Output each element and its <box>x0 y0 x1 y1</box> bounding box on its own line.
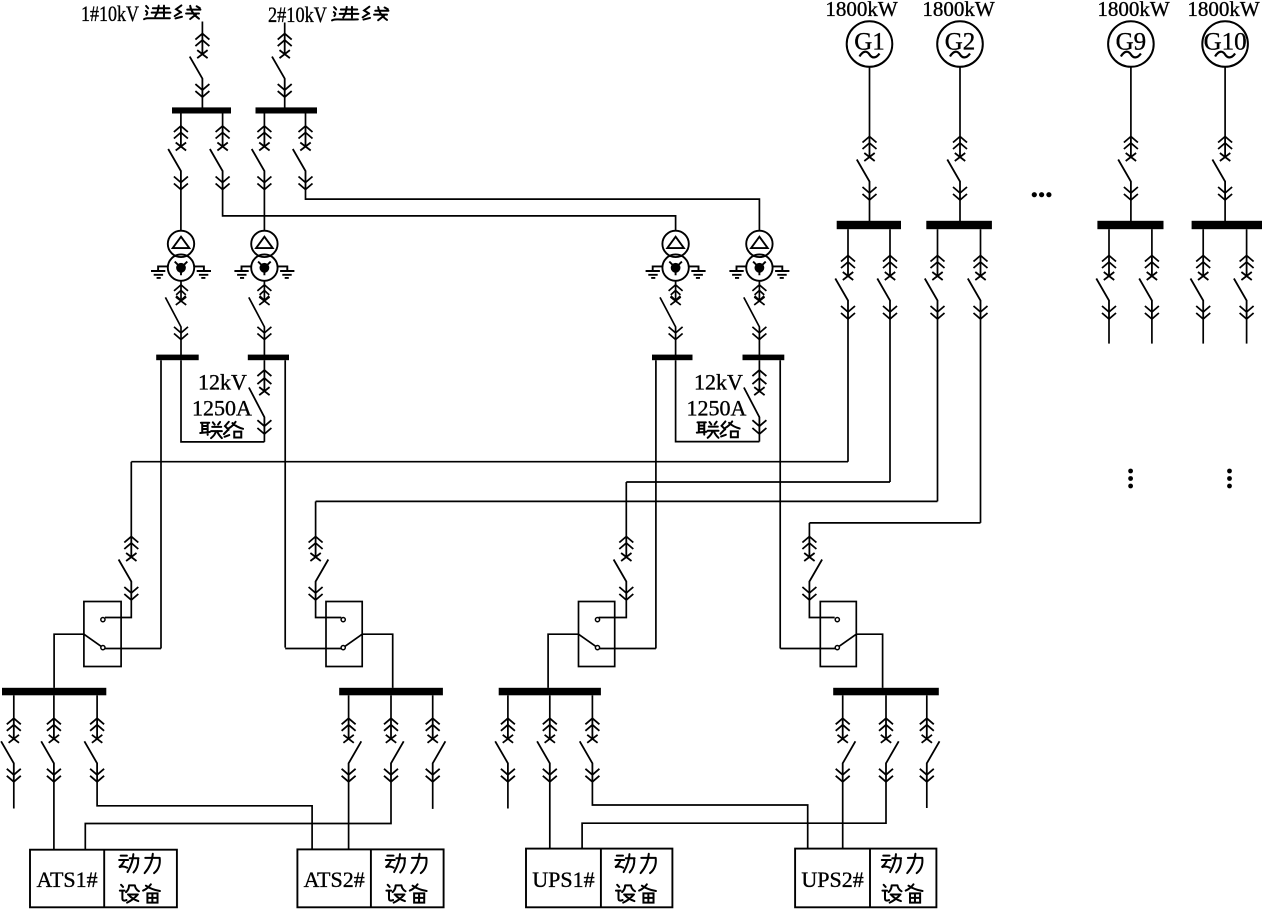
drawout breaker of generator G10 <box>1212 137 1232 201</box>
wire WL4 feeder 2 top <box>885 695 887 718</box>
wire D: WG2 bay2 to UPS2 input 1 (horizontal) <box>809 522 980 524</box>
drawout breaker WG1 bay1 <box>835 256 855 320</box>
svg-text:1#10kV: 1#10kV <box>81 1 139 26</box>
drawout breaker WG4 bay2 <box>1234 256 1254 320</box>
wire WG3 bay2 top <box>1151 229 1153 255</box>
wire WL2 feeder 1 top <box>348 695 350 718</box>
UPS2 fixed contact 1 <box>835 618 839 622</box>
ellipsis dots between G2 and G9 <box>1032 192 1037 197</box>
busbar WL2 (ATS2 LV bus) <box>339 688 443 696</box>
drawout breaker WL3 feeder 2 <box>537 718 557 782</box>
label char 进 (line1) <box>144 6 170 20</box>
label tie2 char 络 <box>720 421 739 437</box>
breaker on ATS2 input 1 <box>309 537 329 601</box>
wire WL2 feeder 2 to ATS1 load box <box>85 782 391 850</box>
wire WB3 feeder to ATS1 input 2 <box>160 360 162 648</box>
load box ATS2# divider <box>370 849 372 907</box>
drawout breaker WG3 bay2 <box>1139 256 1159 320</box>
transformer T2 (delta-wye, grounded) <box>234 231 294 281</box>
busbar WL1 (ATS1 LV bus) <box>2 688 106 696</box>
wire WG4 bay1 stub <box>1202 319 1204 344</box>
drawout breaker WL1 feeder 1 <box>1 718 21 782</box>
svg-text:1250A: 1250A <box>192 395 252 420</box>
label 动力 (UPS2#) <box>882 854 901 872</box>
wire QF2 to bus WB2 <box>284 97 286 108</box>
transformer T3 (delta-wye, grounded) <box>646 231 706 281</box>
wire WB6 to tie breaker 2 <box>758 360 760 370</box>
svg-text:G1: G1 <box>854 28 885 55</box>
UPS2 output wire <box>856 634 882 688</box>
wire bus-tie 1 (WB3 side) <box>181 360 264 442</box>
UPS1 fixed contact 1 <box>595 618 599 622</box>
drawout breaker WL4 feeder 2 <box>879 718 899 782</box>
wire QF4 to transformer T3 <box>223 190 676 231</box>
busbar WB6 (12kV section 4) <box>743 355 785 361</box>
drawout breaker T1 secondary <box>165 285 188 340</box>
wire G10 breaker to generator bus <box>1224 200 1226 221</box>
wire G9 breaker to generator bus <box>1130 200 1132 221</box>
transfer switch UPS1 enclosure <box>579 602 615 667</box>
drawout breaker WL3 feeder 1 <box>495 718 515 782</box>
wire WG4 bay2 top <box>1246 229 1248 255</box>
drawout breaker WG4 bay1 <box>1191 256 1211 320</box>
wire WL3 feeder 3 to UPS2 load box <box>592 782 807 849</box>
drawout breaker WG2 bay2 <box>968 256 988 320</box>
load box ATS1# divider <box>103 850 105 908</box>
generator G9 circle (~) <box>1108 21 1154 67</box>
wire ATS1 input 1 drop <box>130 462 132 537</box>
wire WG2 bay2 top <box>980 229 982 255</box>
ATS2 moving lever <box>345 634 362 646</box>
label 设备 (ATS1#) <box>120 885 139 903</box>
label char 线 (line1) <box>175 5 201 19</box>
load box ATS1# <box>30 850 177 908</box>
breaker on ATS1 input 1 <box>119 537 139 601</box>
UPS1 moving lever <box>579 634 596 646</box>
drawout breaker QF3 (WB1 bay 1) <box>168 126 188 190</box>
busbar WG4 (generator bus 4) <box>1192 221 1262 229</box>
busbar WL4 (UPS2 LV bus) <box>833 688 939 696</box>
wire QF5 to transformer T2 <box>263 190 265 231</box>
wire G2 breaker to generator bus <box>959 200 961 221</box>
drawout breaker WL4 feeder 3 <box>920 718 940 782</box>
label 设备 (UPS2#) <box>882 885 901 903</box>
label tie1 char 联 <box>200 422 222 438</box>
ATS1 contact 2 lead <box>105 648 161 650</box>
drawout breaker WG2 bay1 <box>925 256 945 320</box>
vertical ellipsis under WG3 <box>1128 469 1133 474</box>
transfer switch UPS2 enclosure <box>820 602 856 667</box>
busbar WB2 (10kV section 2) <box>256 107 318 113</box>
UPS2 moving lever <box>839 634 856 646</box>
label 动力 (ATS1#) <box>119 854 138 872</box>
wire ATS2 input 1 to contact <box>316 600 342 618</box>
wire WL3 feeder 3 top <box>591 695 593 718</box>
drawout breaker WG1 bay2 <box>877 256 897 320</box>
tie breaker QF-L2 (12kV 1250A) <box>744 370 767 434</box>
wire T2 secondary <box>263 281 265 285</box>
drawout breaker QF4 (WB1 bay 2) <box>210 126 230 190</box>
wire WG3 bay1 top <box>1108 229 1110 255</box>
wire T1 secondary <box>180 281 182 285</box>
wire G1 to breaker <box>869 67 871 137</box>
wire WL3 feeder 1 top <box>507 695 509 718</box>
wire T3 secondary to 12kV bus <box>675 340 677 356</box>
wire WL1 feeder 2 to ATS1 load box <box>53 782 55 850</box>
load box UPS2# divider <box>869 849 871 908</box>
busbar WG2 (generator bus 2) <box>926 221 992 229</box>
wire bus-tie 2 (WB5 side) <box>676 360 760 441</box>
wire WG4 bay1 top <box>1202 229 1204 255</box>
wire bus to breaker QF4 (WB1 bay 2) <box>222 114 224 127</box>
generator G10 circle (~) <box>1202 21 1248 67</box>
wire A: WG1 bay1 to ATS1 input 1 (horizontal) <box>131 461 848 463</box>
wire WL2 feeder 3 top <box>432 695 434 718</box>
ATS2 contact 2 lead <box>285 648 341 650</box>
load box UPS2# <box>795 849 936 908</box>
drawout breaker WG3 bay1 <box>1096 256 1116 320</box>
svg-text:G2: G2 <box>945 28 976 55</box>
drawout breaker WL3 feeder 3 <box>580 718 600 782</box>
UPS2 contact 2 lead <box>780 648 835 650</box>
wire WB6 feeder to UPS2 input 2 (vertical) <box>779 360 781 648</box>
wire WL4 feeder 2 to UPS1 load box <box>582 782 886 849</box>
svg-text:1800kW: 1800kW <box>1187 0 1260 21</box>
svg-text:G10: G10 <box>1204 28 1247 55</box>
wire WL4 feeder 1 top <box>842 695 844 718</box>
wire bus to breaker QF5 (WB2 bay 1) <box>263 114 265 127</box>
svg-text:ATS2#: ATS2# <box>304 867 365 892</box>
UPS1 contact 2 lead <box>600 648 656 650</box>
svg-text:2#10kV: 2#10kV <box>268 2 327 27</box>
transformer T1 (delta-wye, grounded) <box>151 231 211 281</box>
wire WG2 bay2 drop <box>980 319 982 523</box>
wire bus to breaker QF3 (WB1 bay 1) <box>180 114 182 127</box>
wire WL1 feeder 3 top <box>96 695 98 718</box>
wire QF1 to bus WB1 <box>201 97 203 108</box>
busbar WB5 (12kV section 3) <box>652 355 693 361</box>
wire ATS2 input 1 drop <box>315 501 317 536</box>
busbar WL3 (UPS1 LV bus) <box>499 688 601 696</box>
busbar WB3 (12kV section 1) <box>156 355 199 361</box>
drawout breaker QF5 (WB2 bay 1) <box>252 126 272 190</box>
generator G1 circle (~) <box>847 21 893 67</box>
wire T4 secondary <box>758 281 760 285</box>
wire WG2 bay1 drop <box>937 319 939 501</box>
drawout breaker WL2 feeder 2 <box>384 718 404 782</box>
svg-text:12kV: 12kV <box>198 370 247 395</box>
label tie1 char 络 <box>224 422 243 438</box>
svg-text:12kV: 12kV <box>694 370 743 395</box>
svg-text:ATS1#: ATS1# <box>37 867 98 892</box>
load box ATS2# <box>297 849 443 907</box>
breaker on UPS1 input 1 <box>614 537 634 601</box>
breaker on UPS2 input 1 <box>802 537 822 601</box>
drawout breaker WL1 feeder 3 <box>84 718 104 782</box>
label 动力 (ATS2#) <box>386 854 405 872</box>
load box UPS1# <box>526 849 672 908</box>
wire WL2 feeder 1 to ATS2 load box <box>348 782 350 850</box>
generator G2 circle (~) <box>937 21 983 67</box>
wire UPS1 input 1 to contact <box>599 600 627 618</box>
wire T1 secondary to 12kV bus <box>180 340 182 356</box>
wire WG1 bay1 drop <box>847 319 849 462</box>
load box UPS1# divider <box>600 849 602 908</box>
wire WL4 feeder 1 to UPS2 load box <box>842 782 844 849</box>
wire T3 secondary <box>675 281 677 285</box>
UPS1 fixed contact 2 <box>595 646 599 650</box>
wire WG3 bay1 stub <box>1108 319 1110 344</box>
wire T4 secondary to 12kV bus <box>758 340 760 356</box>
drawout breaker T2 secondary <box>249 285 272 340</box>
svg-text:1800kW: 1800kW <box>922 0 995 21</box>
drawout breaker T4 secondary <box>744 285 767 340</box>
wire WG1 bay2 drop <box>889 319 891 482</box>
wire WG1 bay2 top <box>889 229 891 255</box>
wire bus to breaker QF6 (WB2 bay 2) <box>305 114 307 127</box>
wire WL1 feeder 1 stub <box>13 782 15 809</box>
drawout breaker of generator G1 <box>857 137 877 201</box>
drawout breaker WL2 feeder 1 <box>342 718 362 782</box>
svg-text:G9: G9 <box>1116 28 1147 55</box>
wire B: WG1 bay2 to UPS1 input 1 (horizontal) <box>626 481 890 483</box>
busbar WB4 (12kV section 2) <box>248 355 289 361</box>
wire UPS2 input 1 drop <box>808 523 810 537</box>
busbar WG1 (generator bus 1) <box>837 221 901 229</box>
wire QF3 to transformer T1 <box>180 190 182 231</box>
wire T2 secondary to 12kV bus <box>263 340 265 356</box>
svg-text:1800kW: 1800kW <box>1097 0 1170 21</box>
wire WG1 bay1 top <box>847 229 849 255</box>
wire WG3 bay2 stub <box>1151 319 1153 344</box>
wire G2 to breaker <box>959 67 961 137</box>
drawout breaker WL4 feeder 1 <box>836 718 856 782</box>
ATS1 moving lever <box>84 634 101 646</box>
label char 进 (line2) <box>332 7 358 21</box>
wire C: WG2 bay1 to ATS2 input 1 (horizontal) <box>316 500 938 502</box>
svg-text:UPS1#: UPS1# <box>532 867 594 892</box>
ATS2 fixed contact 1 <box>341 618 345 622</box>
UPS1 output wire <box>548 634 578 688</box>
wire WG4 bay2 stub <box>1246 319 1248 344</box>
label char 线 (line2) <box>363 7 389 21</box>
label tie2 char 联 <box>697 422 719 438</box>
wire G10 to breaker <box>1224 67 1226 137</box>
wire ATS1 input 1 to contact <box>105 600 131 618</box>
transfer switch ATS1 enclosure <box>84 602 121 667</box>
svg-text:1800kW: 1800kW <box>825 0 898 21</box>
wire WL4 feeder 3 top <box>926 695 928 718</box>
wire WL1 feeder 2 top <box>53 695 55 718</box>
tie breaker QF-L1 (12kV 1250A) <box>249 370 272 434</box>
wire WL4 feeder 3 stub <box>926 782 928 808</box>
drawout breaker of generator G2 <box>947 137 967 201</box>
drawout breaker WL2 feeder 3 <box>426 718 446 782</box>
label 设备 (ATS2#) <box>386 885 405 903</box>
wire WL3 feeder 2 top <box>549 695 551 718</box>
wire incoming feeder 1 top <box>201 22 203 34</box>
wire UPS1 input 1 drop <box>625 482 627 537</box>
transformer T4 (delta-wye, grounded) <box>729 231 789 281</box>
drawout breaker T3 secondary <box>660 285 683 340</box>
wire tie breaker 1 bottom <box>263 434 265 442</box>
wire WB4 to tie breaker 1 <box>263 360 265 370</box>
ATS1 fixed contact 2 <box>101 646 105 650</box>
wire WL1 feeder 1 top <box>13 695 15 718</box>
drawout breaker QF1 (10kV incoming 1) <box>190 34 210 98</box>
wire WG2 bay1 top <box>937 229 939 255</box>
wire incoming feeder 2 top <box>284 23 286 34</box>
drawout breaker WL1 feeder 2 <box>41 718 61 782</box>
busbar WB1 (10kV section 1) <box>172 107 231 113</box>
transfer switch ATS2 enclosure <box>326 602 362 667</box>
svg-text:UPS2#: UPS2# <box>801 867 863 892</box>
wire WL2 feeder 3 stub <box>432 782 434 809</box>
wire WB5 feeder to UPS1 input 2 <box>655 360 657 648</box>
vertical ellipsis under WG4 <box>1227 469 1232 474</box>
wire G9 to breaker <box>1130 67 1132 137</box>
ATS2 output wire <box>362 634 393 688</box>
label 设备 (UPS1#) <box>616 885 635 903</box>
ATS1 fixed contact 1 <box>101 618 105 622</box>
wire WL3 feeder 1 stub <box>507 782 509 809</box>
busbar WG3 (generator bus 3) <box>1097 221 1163 229</box>
wire tie breaker 2 bottom <box>758 434 760 442</box>
wire QF6 to transformer T4 <box>306 190 760 231</box>
wire WL3 feeder 2 to UPS1 load box <box>549 782 551 849</box>
wire WL2 feeder 2 top <box>390 695 392 718</box>
svg-text:1250A: 1250A <box>686 395 746 420</box>
drawout breaker QF6 (WB2 bay 2) <box>293 126 313 190</box>
wire WL1 feeder 3 to ATS2 load box <box>97 782 312 850</box>
drawout breaker of generator G9 <box>1118 137 1138 201</box>
wire WB4 feeder to ATS2 input 2 (vertical) <box>284 360 286 647</box>
UPS2 fixed contact 2 <box>835 646 839 650</box>
wire UPS2 input 1 to contact <box>809 600 834 618</box>
ATS1 output wire <box>54 634 84 688</box>
drawout breaker QF2 (10kV incoming 2) <box>272 34 292 98</box>
ATS2 fixed contact 2 <box>341 646 345 650</box>
label 动力 (UPS1#) <box>615 854 634 872</box>
wire G1 breaker to generator bus <box>869 200 871 221</box>
